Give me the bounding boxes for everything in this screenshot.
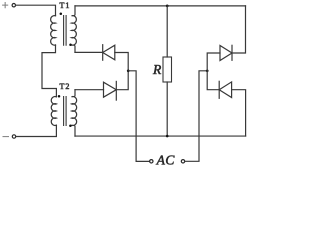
- wire from + terminal to T1 primary top: [16, 5, 56, 15]
- wire resistor to bottom bus: [166, 82, 168, 136]
- transformer T2 secondary winding: [72, 90, 77, 136]
- wire from - terminal to T2 primary bottom: [16, 125, 57, 136]
- polarity dot T2 bottom: [69, 124, 72, 127]
- minus terminal sign: [3, 136, 9, 138]
- top bus wire: [75, 5, 246, 7]
- AC left terminal circle: [150, 160, 153, 163]
- transformer T1 secondary winding: [72, 6, 77, 53]
- svg-text:AC: AC: [156, 152, 176, 167]
- junction dot left diode node: [127, 69, 130, 72]
- polarity dot T1 top: [60, 12, 63, 15]
- resistor R body: [163, 57, 172, 82]
- junction dot bottom bus / resistor: [166, 135, 169, 138]
- wire top bus to resistor: [166, 6, 168, 57]
- transformer T1 primary winding: [51, 15, 56, 45]
- polarity dot T2 top: [58, 95, 61, 98]
- terminal + circle: [12, 3, 15, 6]
- transformer T2 core: [64, 97, 67, 126]
- AC right terminal circle: [181, 160, 184, 163]
- diode D1 triangle: [103, 45, 115, 60]
- wire T1 secondary bottom to diode D1: [75, 51, 103, 53]
- diode D3 triangle: [220, 46, 232, 61]
- wire left junction to AC left terminal: [128, 71, 149, 162]
- wire D4 anode to bottom bus: [232, 90, 246, 136]
- svg-text:T2: T2: [60, 82, 71, 91]
- wire AC right terminal to right junction: [185, 71, 207, 162]
- bottom bus wire: [75, 135, 246, 137]
- wire D1 anode to left junction: [115, 53, 128, 71]
- wire T1 primary bottom to T2 primary top (left bypass): [42, 45, 56, 97]
- wire T2 secondary top to diode D2: [75, 89, 104, 91]
- polarity dot T1 bottom: [69, 44, 72, 47]
- terminal - circle: [12, 135, 15, 138]
- svg-text:R: R: [152, 62, 162, 77]
- junction dot top bus / resistor: [166, 5, 169, 8]
- junction dot right diode node: [206, 69, 209, 72]
- transformer T1 core: [64, 16, 67, 46]
- svg-text:T1: T1: [60, 1, 71, 10]
- wire D3 cathode to top bus: [232, 6, 246, 53]
- diode D3 cathode bar: [231, 45, 233, 60]
- wire D2 cathode to left junction: [116, 71, 128, 90]
- wire right junction to diode D3: [207, 53, 220, 71]
- transformer T2 primary winding: [51, 97, 56, 126]
- diode D4 triangle: [219, 82, 231, 98]
- diode D4 cathode bar: [218, 81, 220, 98]
- wire right junction to diode D4: [207, 71, 219, 90]
- diode D2 triangle: [104, 82, 117, 97]
- diode D1 cathode bar: [102, 45, 104, 61]
- diode D2 cathode bar: [115, 81, 117, 100]
- plus terminal sign: [3, 3, 8, 8]
